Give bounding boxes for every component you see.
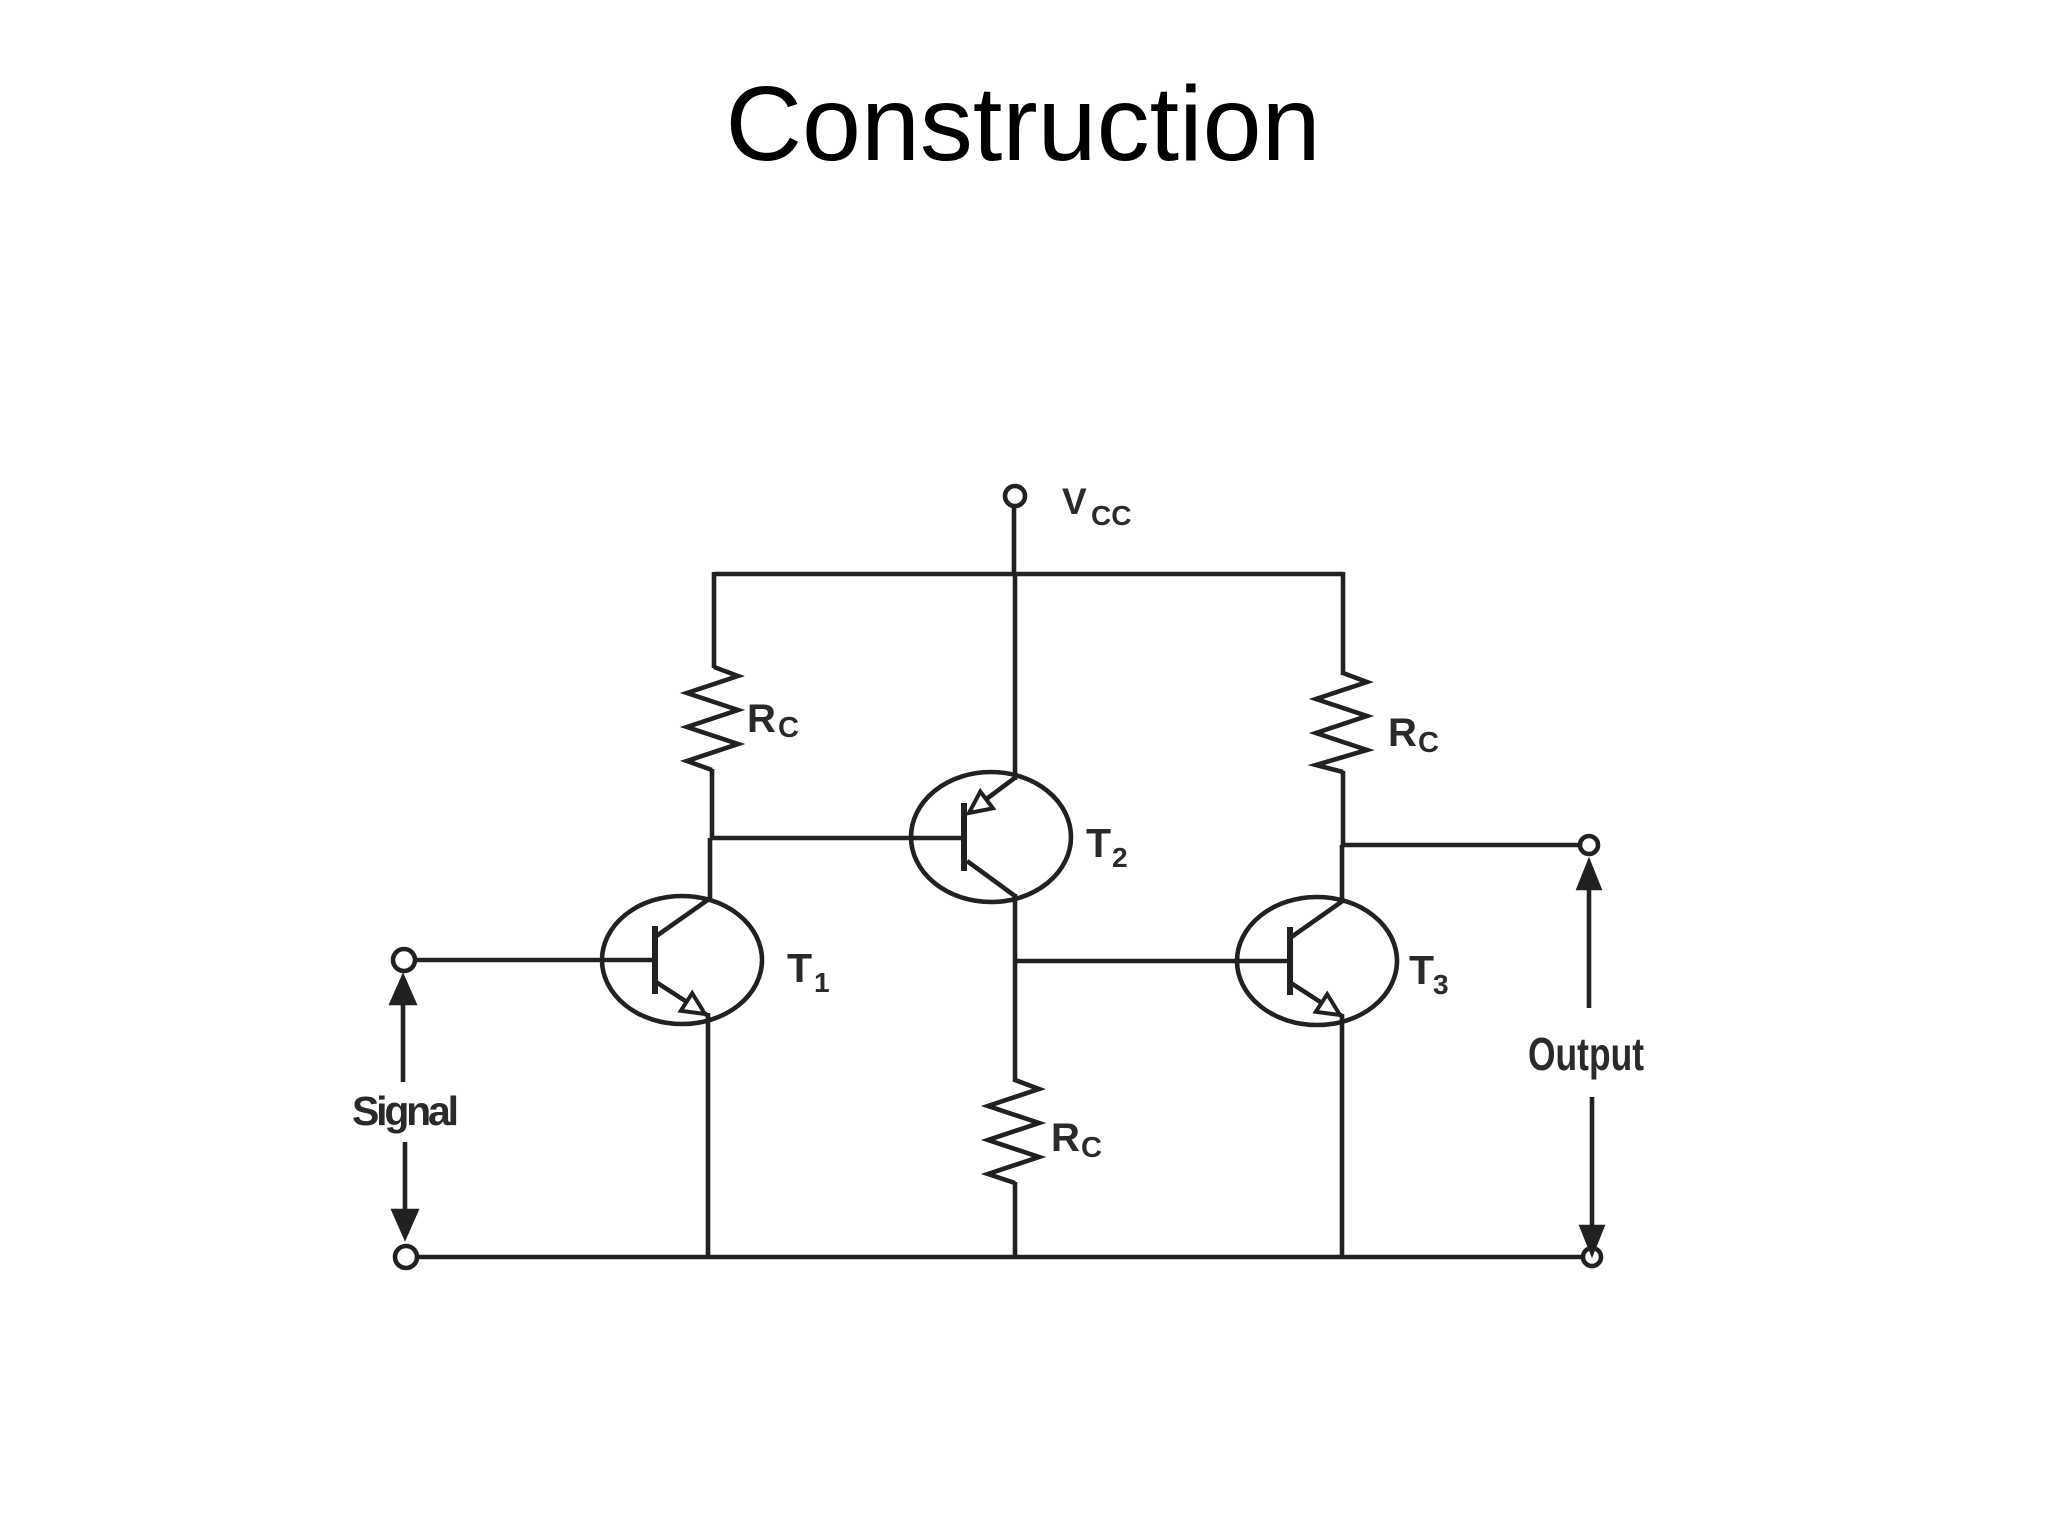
svg-text:T: T <box>787 945 812 991</box>
label RC (left) <box>747 697 799 744</box>
arrow: output down <box>1582 1097 1602 1252</box>
wire: right branch upper <box>1341 572 1346 675</box>
wire: RC3 to bottom rail <box>1013 1182 1018 1257</box>
label VCC <box>1062 481 1131 531</box>
svg-text:R: R <box>1388 711 1417 755</box>
svg-text:C: C <box>1081 1132 1102 1164</box>
svg-text:C: C <box>1418 727 1439 759</box>
label RC (right) <box>1388 711 1439 759</box>
svg-text:Construction: Construction <box>725 65 1320 183</box>
wire: top rail <box>714 572 1343 577</box>
wire: junction to T1 collector <box>708 838 713 901</box>
svg-text:T: T <box>1409 947 1434 993</box>
wire: T2 collector down to RC3 <box>1013 894 1018 1082</box>
wire: output line <box>1343 843 1580 848</box>
label T3 <box>1409 947 1449 1000</box>
label T2 <box>1086 820 1128 873</box>
wire: T2 base line <box>712 836 962 841</box>
svg-text:V: V <box>1062 481 1087 522</box>
svg-text:CC: CC <box>1091 500 1131 531</box>
arrow: signal up <box>392 978 414 1082</box>
wire: junction to T3 collector <box>1340 845 1345 901</box>
wire: left branch upper <box>712 572 717 668</box>
wire: Vcc rail down to T2 emitter <box>1013 574 1018 780</box>
wire: T1 emitter down <box>706 1013 711 1257</box>
wire: RC2 to output junction <box>1341 771 1346 847</box>
svg-text:2: 2 <box>1112 842 1128 873</box>
resistor RC1 (left) <box>687 667 738 770</box>
terminal input plus <box>393 949 415 971</box>
terminal input minus <box>395 1246 417 1268</box>
wire: T3 base line <box>1014 959 1288 964</box>
arrow: output up <box>1579 863 1599 1008</box>
svg-text:R: R <box>1051 1116 1080 1160</box>
svg-text:1: 1 <box>814 967 830 998</box>
svg-text:R: R <box>747 697 776 741</box>
transistor T2 <box>911 772 1071 902</box>
resistor RC3 (bottom center) <box>988 1080 1039 1183</box>
svg-text:T: T <box>1086 820 1111 866</box>
transistor T3 <box>1237 897 1397 1025</box>
wire: bottom rail <box>417 1255 1583 1260</box>
label RC (bottom) <box>1051 1116 1102 1164</box>
svg-text:C: C <box>778 712 799 744</box>
terminal output minus <box>1583 1248 1601 1266</box>
wire: T3 emitter down <box>1340 1014 1345 1257</box>
terminal VCC <box>1005 486 1025 506</box>
terminal output plus <box>1580 836 1598 854</box>
svg-text:Output: Output <box>1528 1028 1644 1080</box>
svg-text:Signal: Signal <box>352 1088 459 1134</box>
wire: Vcc lead <box>1012 505 1017 576</box>
resistor RC2 (right) <box>1316 673 1367 772</box>
wire: RC1 to T2-base junction <box>710 769 715 840</box>
label T1 <box>787 945 830 998</box>
arrow: signal down <box>394 1142 416 1236</box>
wire: T1 base from input <box>415 958 653 963</box>
svg-text:3: 3 <box>1433 969 1449 1000</box>
transistor T1 <box>602 896 762 1024</box>
